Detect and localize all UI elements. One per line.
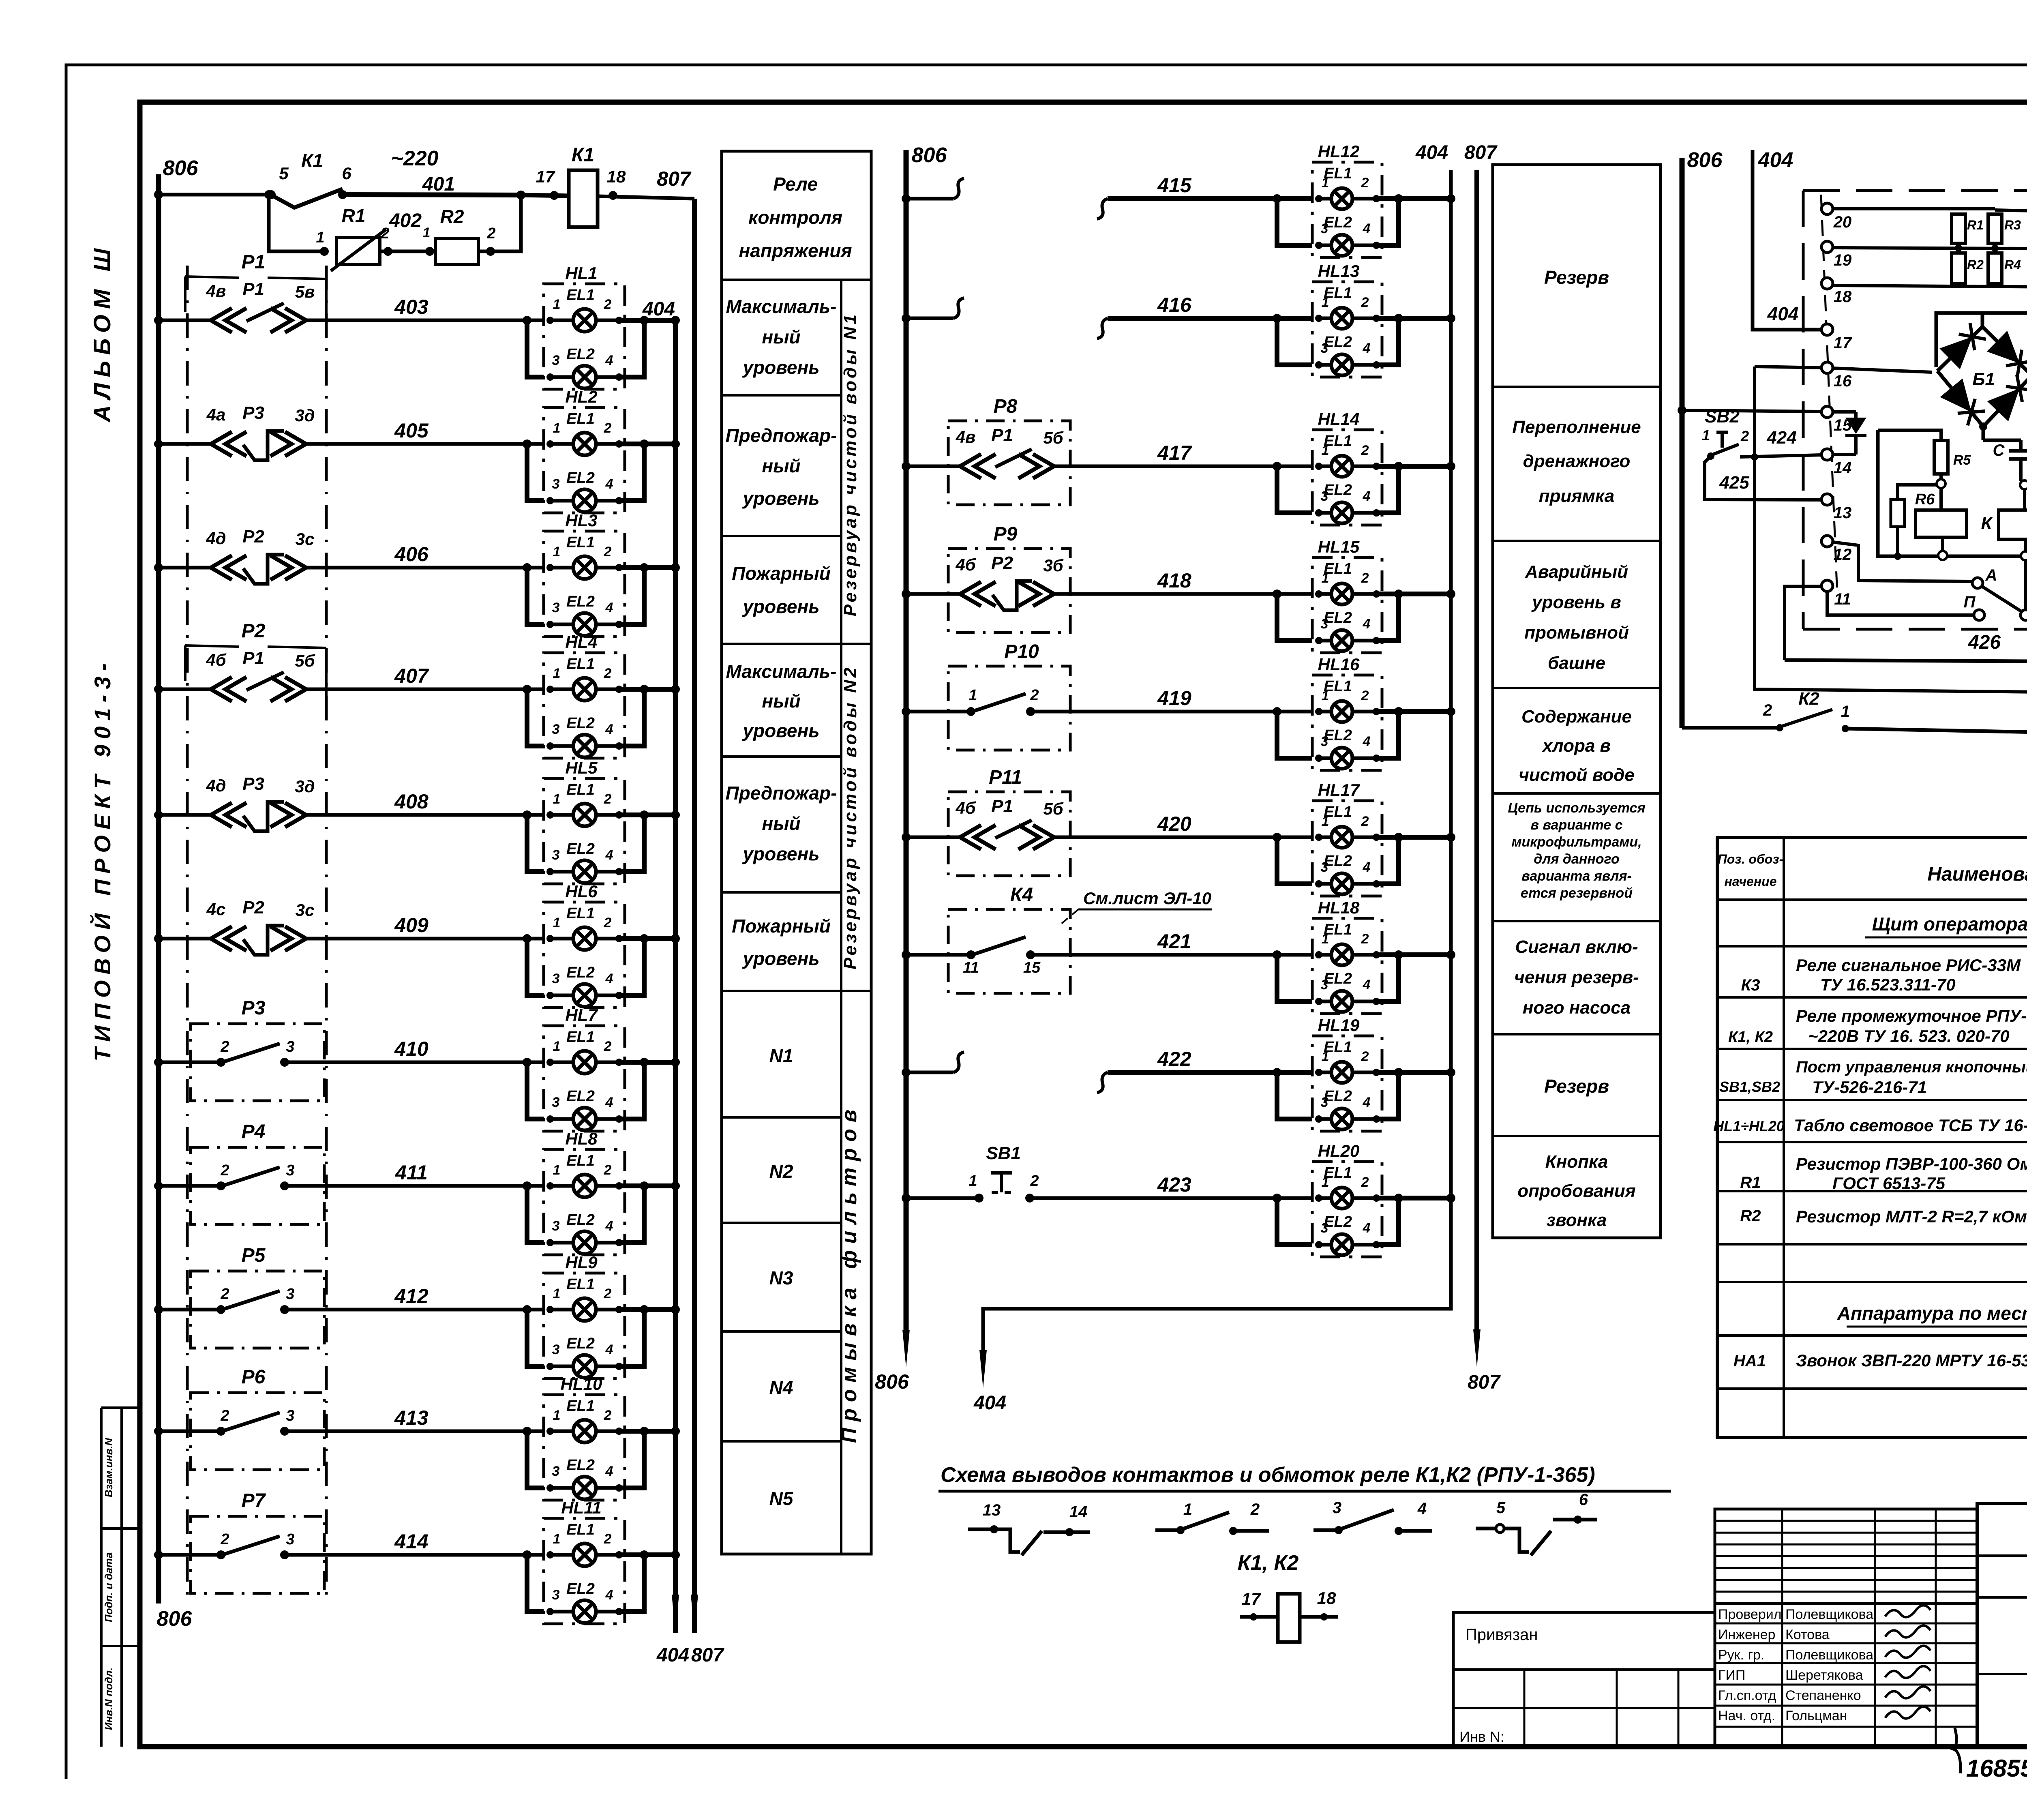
wires inside HL10 — [550, 1430, 573, 1433]
svg-text:EL2: EL2 — [566, 469, 595, 487]
junction rung 419 on bus 806 middle — [902, 707, 911, 716]
pins HL5 — [546, 811, 554, 819]
parts table row y=2587 — [1717, 1048, 2027, 1050]
junction rung 412 on bus 806 — [154, 1305, 163, 1314]
middle column divider y=1697 — [1493, 687, 1661, 689]
svg-text:А: А — [1985, 566, 1997, 584]
wire HL16 to bus 404 middle — [1376, 709, 1451, 714]
svg-text:EL1: EL1 — [566, 287, 595, 304]
svg-text:Гольцман: Гольцман — [1785, 1708, 1847, 1724]
svg-text:ный: ный — [762, 813, 800, 834]
svg-text:Резерв: Резерв — [1544, 1076, 1609, 1097]
svg-text:Р10: Р10 — [1004, 641, 1039, 662]
svg-text:2: 2 — [604, 1531, 612, 1547]
svg-text:Звонок ЗВП-220 МРТУ 16-539. 40: Звонок ЗВП-220 МРТУ 16-539. 401-71 — [1796, 1351, 2027, 1370]
svg-text:15: 15 — [1023, 959, 1041, 976]
aux resistor to rail — [1896, 527, 1899, 556]
svg-text:HL18: HL18 — [1318, 898, 1360, 917]
svg-text:П: П — [1964, 593, 1976, 611]
svg-text:3: 3 — [552, 847, 560, 863]
svg-text:4б: 4б — [206, 650, 226, 669]
output merge HL10 — [619, 1431, 644, 1488]
left margin bottom strip — [100, 1408, 103, 1747]
svg-text:404: 404 — [656, 1644, 689, 1666]
svg-text:EL1: EL1 — [566, 1521, 595, 1538]
wires inside HL6 — [550, 937, 573, 941]
svg-text:2: 2 — [1361, 814, 1369, 829]
svg-text:4: 4 — [1363, 1095, 1371, 1110]
svg-text:18: 18 — [1317, 1588, 1336, 1608]
output merge HL6 — [619, 939, 644, 995]
legend coil K1 K2 — [1278, 1594, 1300, 1642]
svg-text:3: 3 — [552, 600, 560, 615]
contact Р4 — [216, 1181, 225, 1190]
junction rung 416 on bus 806 middle — [902, 314, 911, 323]
svg-text:16855- 03: 16855- 03 — [1966, 1755, 2027, 1782]
contact Р4 box — [191, 1147, 324, 1224]
junction rung 417 on bus 806 middle — [902, 462, 911, 471]
bus 404 right — [1753, 150, 1821, 330]
lamp HL12 EL1 — [1331, 188, 1352, 209]
output merge HL19 — [1376, 1072, 1399, 1119]
branch to EL2 of HL20 — [1273, 1194, 1281, 1203]
svg-text:Рук. гр.: Рук. гр. — [1718, 1647, 1764, 1663]
svg-text:К1: К1 — [301, 150, 323, 171]
bridge bottom corner dot — [1979, 422, 1987, 431]
svg-text:419: 419 — [1157, 687, 1191, 710]
wire HL19 to bus 404 middle — [1376, 1070, 1451, 1075]
svg-text:R3: R3 — [2004, 218, 2021, 232]
contact Р2 chevrons — [211, 555, 232, 580]
pins HL8 — [546, 1182, 554, 1190]
svg-text:Содержание: Содержание — [1521, 707, 1632, 727]
contact A-P terminals — [1972, 578, 1983, 588]
svg-text:4: 4 — [1363, 977, 1371, 993]
wires inside HL9 — [550, 1308, 573, 1312]
resistor R3 — [1988, 214, 2002, 243]
svg-text:4: 4 — [1363, 221, 1371, 236]
svg-text:См.лист ЭЛ-10: См.лист ЭЛ-10 — [1083, 889, 1211, 908]
junction rung 408 on bus 806 — [154, 810, 163, 819]
svg-text:Аварийный: Аварийный — [1525, 562, 1628, 582]
svg-text:2: 2 — [1361, 175, 1369, 191]
wire T12 to A — [1833, 542, 1972, 581]
wire 402 — [380, 250, 435, 253]
wire T18 to R2 R4 T8 — [1833, 285, 2027, 287]
bridge diode BL — [1940, 379, 1971, 412]
wire rung 412 to lamp — [285, 1308, 544, 1312]
contact Р11 — [960, 825, 981, 849]
wires inside HL13 — [1319, 317, 1331, 320]
svg-text:чистой воде: чистой воде — [1519, 765, 1635, 785]
branch to EL2 of HL10 — [523, 1427, 531, 1436]
wire 417 to lamp — [1055, 465, 1312, 468]
svg-text:EL2: EL2 — [566, 715, 595, 732]
lamp HL13 EL2 — [1331, 354, 1352, 375]
wire rung 413 to lamp — [285, 1430, 544, 1433]
svg-text:404: 404 — [1415, 142, 1448, 163]
lamp HL3 EL2 — [573, 613, 596, 636]
contact group box Р11 — [948, 792, 1070, 876]
svg-text:R1: R1 — [1740, 1174, 1761, 1192]
svg-text:уровень: уровень — [742, 948, 819, 969]
svg-text:Р2: Р2 — [242, 898, 264, 918]
wires inside HL4 — [550, 688, 573, 691]
svg-text:HL10: HL10 — [561, 1374, 602, 1393]
svg-text:1: 1 — [1322, 1175, 1329, 1190]
lamp HL7 EL1 — [573, 1051, 596, 1074]
svg-text:412: 412 — [394, 1285, 429, 1308]
svg-text:4в: 4в — [956, 427, 976, 446]
svg-text:3: 3 — [1321, 1095, 1328, 1110]
svg-text:Р5: Р5 — [242, 1245, 266, 1266]
node 2 below C R7 — [2021, 481, 2027, 485]
bus 806 right — [1680, 158, 1685, 728]
svg-text:1: 1 — [1322, 295, 1329, 310]
wire 425 — [1705, 456, 1822, 500]
svg-text:HL17: HL17 — [1318, 780, 1360, 800]
pins HL4 — [546, 686, 554, 693]
wire rung 414 to lamp — [285, 1553, 544, 1557]
contact Р3 chevrons — [211, 803, 232, 827]
wire 415 to lamp — [1097, 199, 1108, 219]
svg-text:3: 3 — [286, 1038, 294, 1055]
lamp unit HL20 — [1312, 1162, 1382, 1257]
svg-text:Р2: Р2 — [242, 620, 266, 642]
bus 806 middle — [904, 150, 909, 1334]
svg-text:2: 2 — [220, 1407, 229, 1424]
svg-text:Степаненко: Степаненко — [1785, 1688, 1861, 1703]
svg-text:807: 807 — [1468, 1372, 1501, 1393]
svg-text:421: 421 — [1157, 930, 1191, 953]
junction rung 407 on bus 806 — [154, 685, 163, 694]
svg-text:Р2: Р2 — [242, 527, 264, 547]
branch to EL2 of HL15 — [1273, 590, 1281, 598]
wire rung 405 left — [159, 442, 211, 446]
svg-text:Реле промежуточное РПУ-1-365: Реле промежуточное РПУ-1-365 — [1796, 1006, 2027, 1025]
wire HL11 to bus 404 — [619, 1552, 675, 1557]
svg-text:К1, К2: К1, К2 — [1238, 1551, 1299, 1575]
svg-text:R2: R2 — [1967, 257, 1984, 272]
contact group box Р8 — [948, 421, 1070, 505]
svg-text:1: 1 — [553, 915, 561, 930]
svg-text:N4: N4 — [769, 1377, 793, 1398]
connector dash line left — [186, 266, 189, 1601]
lamp HL4 EL1 — [573, 678, 596, 701]
lamp HL9 EL1 — [573, 1298, 596, 1321]
wires inside HL14 — [1319, 465, 1331, 468]
svg-text:417: 417 — [1157, 442, 1192, 464]
svg-text:звонка: звонка — [1547, 1210, 1607, 1230]
svg-text:3: 3 — [552, 1464, 560, 1479]
svg-text:ТИПОВОЙ ПРОЕКТ 901-3-: ТИПОВОЙ ПРОЕКТ 901-3- — [90, 658, 115, 1061]
parts table row y=2817 — [1717, 1141, 2027, 1143]
pins HL10 — [546, 1428, 554, 1435]
svg-text:HL8: HL8 — [565, 1129, 598, 1148]
svg-text:3: 3 — [1321, 616, 1328, 632]
contact group box К4 — [948, 909, 1070, 993]
lamp HL10 EL1 — [573, 1420, 596, 1443]
parts table row y=2938 — [1717, 1190, 2027, 1192]
title block right part frame — [1977, 1503, 2027, 1747]
lamp unit HL9 — [544, 1273, 625, 1378]
svg-text:416: 416 — [1157, 294, 1192, 316]
svg-text:3: 3 — [552, 1218, 560, 1234]
lamp HL1 EL1 — [573, 309, 596, 332]
svg-text:5б: 5б — [295, 651, 315, 670]
resistor R2 — [435, 238, 478, 264]
contact Р10 — [966, 707, 975, 716]
svg-text:ТУ-526-216-71: ТУ-526-216-71 — [1812, 1078, 1927, 1097]
svg-text:1: 1 — [1841, 703, 1850, 720]
wire to relay K coil — [2023, 489, 2026, 510]
svg-text:2: 2 — [1250, 1501, 1260, 1518]
svg-text:для данного: для данного — [1534, 851, 1619, 867]
svg-text:3: 3 — [552, 1587, 560, 1603]
svg-text:Резервуар чистой воды N2: Резервуар чистой воды N2 — [840, 665, 860, 970]
parts table row y=3069 — [1717, 1243, 2027, 1245]
svg-text:2: 2 — [1361, 1175, 1369, 1190]
output merge HL5 — [619, 815, 644, 872]
wire HL20 to bus 404 middle — [1376, 1196, 1451, 1200]
svg-text:426: 426 — [1968, 632, 2001, 653]
middle column divider y=2802 — [1493, 1135, 1661, 1137]
svg-text:2: 2 — [1361, 443, 1369, 458]
wire rung 410 left — [159, 1061, 221, 1064]
svg-text:контроля: контроля — [748, 207, 842, 228]
lane divider — [840, 280, 842, 1554]
wire branch to R1 — [269, 195, 324, 251]
svg-text:1: 1 — [1183, 1501, 1192, 1518]
wire HL15 to bus 404 middle — [1376, 592, 1451, 596]
bridge diode BR — [1987, 388, 2020, 421]
lamp unit HL8 — [544, 1149, 625, 1255]
wire 424 — [1740, 455, 1821, 457]
wires inside HL1 — [550, 319, 573, 322]
connector dash line right — [325, 266, 328, 1601]
wire stub 422 — [906, 1071, 954, 1074]
svg-text:N2: N2 — [769, 1161, 793, 1182]
svg-text:3д: 3д — [295, 406, 315, 425]
wire rung 407 to lamp — [307, 688, 544, 691]
svg-text:3: 3 — [1321, 489, 1328, 504]
svg-text:уровень: уровень — [742, 488, 819, 509]
svg-text:4: 4 — [605, 1464, 613, 1479]
lamp HL3 EL1 — [573, 556, 596, 579]
parts table row y=2334 — [1717, 945, 2027, 948]
wire HL10 to bus 404 — [619, 1429, 675, 1434]
svg-text:3б: 3б — [1043, 556, 1063, 575]
lamp HL20 EL2 — [1331, 1234, 1352, 1255]
svg-text:14: 14 — [1069, 1503, 1088, 1521]
output merge HL12 — [1376, 199, 1399, 245]
lamp unit HL4 — [544, 653, 625, 758]
svg-text:EL2: EL2 — [566, 964, 595, 981]
svg-text:3: 3 — [552, 1095, 560, 1110]
wire R2 to rung — [478, 195, 521, 251]
svg-text:807: 807 — [657, 167, 692, 190]
svg-text:1: 1 — [1322, 814, 1329, 829]
svg-text:EL2: EL2 — [566, 840, 595, 857]
wire HL3 to bus 404 — [619, 565, 675, 570]
svg-text:2: 2 — [1740, 428, 1749, 444]
svg-text:3: 3 — [1321, 341, 1328, 356]
wire rung 403 to lamp — [307, 319, 544, 322]
junction rung 406 on bus 806 — [154, 563, 163, 572]
lamp unit HL10 — [544, 1395, 625, 1500]
svg-text:4: 4 — [605, 722, 613, 737]
svg-text:хлора в: хлора в — [1542, 736, 1611, 756]
output merge HL13 — [1376, 318, 1399, 365]
R6 top link — [1939, 488, 1943, 510]
svg-text:1: 1 — [1322, 175, 1329, 191]
wire 416 to lamp — [1097, 318, 1108, 339]
inner box left and bottom rail — [1878, 430, 2022, 556]
lamp HL20 EL1 — [1331, 1188, 1352, 1209]
svg-text:19: 19 — [1834, 251, 1852, 269]
junction rung 403 on bus 806 — [154, 316, 163, 325]
svg-text:Р11: Р11 — [989, 767, 1022, 788]
svg-text:1: 1 — [553, 1039, 561, 1054]
svg-text:Предпожар-: Предпожар- — [726, 425, 837, 446]
wire node to aux resistor — [1898, 485, 1937, 499]
resistor R1 right section — [1952, 214, 1965, 243]
svg-text:Привязан: Привязан — [1466, 1626, 1538, 1644]
wire 401 junction to coil K1 — [521, 195, 569, 196]
svg-text:2: 2 — [220, 1162, 229, 1179]
svg-text:Шеретякова: Шеретякова — [1785, 1668, 1863, 1683]
svg-text:EL2: EL2 — [566, 346, 595, 363]
contact Р8 — [960, 454, 981, 478]
pins HL17 — [1315, 834, 1322, 841]
svg-text:2: 2 — [380, 225, 389, 242]
output merge HL14 — [1376, 466, 1399, 513]
svg-text:уровень: уровень — [742, 720, 819, 741]
svg-text:EL2: EL2 — [566, 1335, 595, 1352]
lamp HL5 EL2 — [573, 860, 596, 883]
svg-text:2: 2 — [220, 1531, 229, 1548]
wire rung 406 left — [159, 566, 211, 570]
wire rung 419 left — [906, 710, 971, 714]
branch to EL2 of HL13 — [1273, 314, 1281, 323]
svg-text:4д: 4д — [206, 776, 226, 795]
svg-text:АЛЬБОМ Ш: АЛЬБОМ Ш — [89, 243, 116, 423]
svg-text:1: 1 — [1322, 570, 1329, 586]
svg-text:2: 2 — [1763, 701, 1772, 719]
svg-text:2: 2 — [1361, 570, 1369, 586]
svg-text:Щит оператора: Щит оператора — [1872, 913, 2027, 935]
svg-text:423: 423 — [1157, 1173, 1191, 1196]
wire T19 to R dividers and T9 — [1833, 248, 2027, 249]
pins HL2 — [546, 440, 554, 448]
wire rung 412 left — [159, 1308, 221, 1312]
svg-text:R2: R2 — [440, 206, 464, 227]
branch to EL2 of HL3 — [523, 563, 531, 572]
svg-text:Р9: Р9 — [994, 523, 1018, 545]
branch to EL2 of HL17 — [1273, 833, 1281, 842]
column divider y=3016 — [722, 1222, 841, 1224]
junction rung 405 on bus 806 — [154, 439, 163, 448]
contact blade A-P — [1982, 587, 2021, 611]
lamp HL1 EL2 — [573, 366, 596, 388]
wires inside HL8 — [550, 1184, 573, 1188]
lamp unit HL1 — [544, 284, 625, 389]
contact group box Р9 — [948, 549, 1070, 632]
svg-text:2: 2 — [1361, 688, 1369, 703]
svg-text:HL1: HL1 — [565, 264, 597, 283]
svg-text:К: К — [1981, 513, 1993, 533]
svg-text:406: 406 — [394, 543, 429, 566]
parts table row y=2460 — [1717, 996, 2027, 999]
lamp HL14 EL2 — [1331, 502, 1352, 523]
lamp HL14 EL1 — [1331, 456, 1352, 477]
lamp HL8 EL2 — [573, 1231, 596, 1254]
bridge diode TL — [1939, 337, 1972, 369]
aux resistor left of R6 — [1891, 499, 1905, 527]
svg-text:приямка: приямка — [1539, 486, 1614, 506]
resistor R2 right section — [1952, 253, 1965, 284]
svg-text:уровень: уровень — [742, 357, 819, 378]
legend contact 5-6 — [1476, 1527, 1500, 1531]
wire HL14 to bus 404 middle — [1376, 464, 1451, 469]
svg-text:2: 2 — [220, 1038, 229, 1055]
wire 419 to lamp — [1031, 710, 1312, 714]
svg-text:3: 3 — [1321, 1220, 1328, 1236]
wire HL4 to bus 404 — [619, 687, 675, 692]
svg-text:N3: N3 — [769, 1267, 793, 1288]
branch to EL2 of HL12 — [1273, 194, 1281, 203]
resistor R4 — [1988, 253, 2002, 284]
lamp HL19 EL1 — [1331, 1062, 1352, 1083]
svg-text:ного насоса: ного насоса — [1523, 998, 1631, 1018]
wire T14 right — [1833, 453, 1856, 456]
svg-text:402: 402 — [389, 210, 422, 232]
branch to EL2 of HL6 — [523, 934, 531, 943]
svg-text:1: 1 — [1322, 688, 1329, 703]
svg-text:806: 806 — [1687, 148, 1723, 172]
svg-text:Резерв: Резерв — [1544, 267, 1609, 288]
contact K2 bottom row — [1682, 726, 1780, 730]
svg-text:2: 2 — [604, 1039, 612, 1054]
branch to EL2 of HL18 — [1273, 950, 1281, 959]
svg-text:Сигнал вклю-: Сигнал вклю- — [1515, 937, 1638, 957]
svg-text:HL19: HL19 — [1318, 1016, 1360, 1035]
svg-text:414: 414 — [394, 1530, 428, 1553]
svg-text:Переполнение: Переполнение — [1512, 417, 1641, 437]
svg-text:1: 1 — [969, 687, 977, 704]
wires inside HL19 — [1319, 1071, 1331, 1074]
svg-text:3: 3 — [552, 1342, 560, 1357]
pins HL11 — [546, 1551, 554, 1558]
svg-text:2: 2 — [604, 297, 612, 312]
svg-text:Инв N:: Инв N: — [1459, 1728, 1504, 1745]
svg-text:14: 14 — [1834, 459, 1852, 477]
svg-text:R2: R2 — [1740, 1207, 1761, 1225]
title block left grid — [1453, 1670, 1715, 1747]
svg-text:420: 420 — [1157, 812, 1191, 835]
contact Р3 — [216, 1058, 225, 1067]
svg-text:405: 405 — [394, 419, 429, 442]
svg-text:2: 2 — [604, 1286, 612, 1301]
svg-text:HL6: HL6 — [565, 882, 598, 901]
svg-text:1: 1 — [553, 1286, 561, 1301]
output merge HL9 — [619, 1310, 644, 1366]
svg-text:2: 2 — [604, 791, 612, 807]
lamp HL16 EL1 — [1331, 701, 1352, 722]
doc number 16855-03 45 — [1953, 1728, 1961, 1773]
svg-text:20: 20 — [1833, 213, 1852, 231]
contact Р2 chevrons — [211, 926, 232, 951]
